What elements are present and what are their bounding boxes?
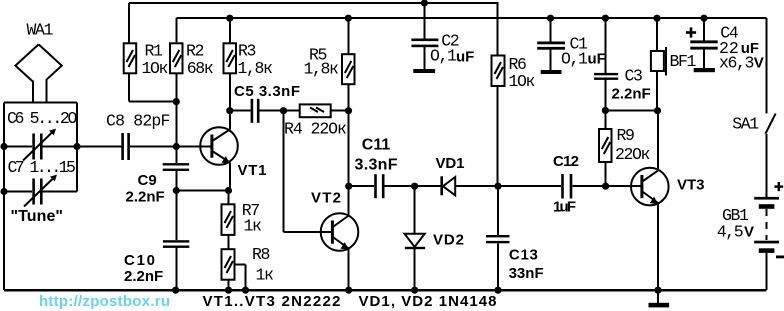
svg-text:R1: R1	[145, 42, 164, 61]
wire second rail	[176, 17, 766, 19]
node ground-rail	[654, 287, 661, 294]
wire signal row to C8	[77, 146, 121, 148]
svg-text:R9: R9	[617, 126, 635, 145]
transistor VT3	[606, 111, 705, 291]
node C10-rail	[172, 287, 179, 294]
wire bottom rail	[4, 289, 767, 291]
node C9-emitter	[173, 187, 180, 194]
node VT2 emitter-rail	[345, 287, 352, 294]
capacitor C2	[411, 3, 474, 73]
svg-text:http://zpostbox.ru: http://zpostbox.ru	[39, 293, 170, 310]
wire R9/BF1 row	[605, 109, 657, 111]
svg-text:x6,3: x6,3	[719, 53, 754, 72]
resistor R8 (with tap)	[222, 245, 274, 290]
svg-text:SA1: SA1	[732, 115, 759, 134]
svg-text:1Oк: 1Oк	[509, 72, 535, 91]
diode VD2	[405, 186, 465, 290]
capacitor C6 (variable)	[4, 109, 77, 161]
node VD2-rail	[411, 287, 418, 294]
svg-text:68к: 68к	[187, 59, 213, 78]
node C3-rail	[602, 15, 609, 22]
switch SA1	[732, 18, 775, 197]
svg-text:R8: R8	[252, 245, 270, 264]
svg-text:1uF: 1uF	[553, 198, 576, 215]
svg-text:O,1: O,1	[430, 47, 457, 66]
resistor R7	[222, 191, 262, 250]
node BF1-collector	[654, 107, 661, 114]
capacitor C5	[230, 83, 300, 123]
capacitor C8	[106, 112, 169, 161]
svg-text:uF: uF	[588, 51, 606, 68]
wire top rail	[129, 2, 499, 4]
node base VT1	[173, 143, 180, 150]
svg-text:C11: C11	[362, 137, 391, 154]
transistor VT2	[311, 111, 358, 290]
node R8-rail	[225, 287, 232, 294]
resistor R9	[599, 110, 650, 186]
svg-text:R4 22Oк: R4 22Oк	[284, 120, 346, 139]
capacitor C13	[486, 186, 544, 290]
node R8 tap-rail	[242, 287, 249, 294]
svg-text:3.3nF: 3.3nF	[355, 156, 398, 173]
node C7 left	[0, 188, 7, 195]
node BF1-rail	[653, 15, 660, 22]
svg-text:22Oк: 22Oк	[615, 145, 650, 164]
svg-text:4,5: 4,5	[717, 223, 743, 242]
svg-text:2.2nF: 2.2nF	[124, 268, 163, 285]
svg-text:2.2nF: 2.2nF	[612, 85, 651, 102]
svg-text:1,8к: 1,8к	[304, 60, 339, 79]
node C6 left	[0, 143, 7, 150]
node C5-R4	[280, 107, 287, 114]
svg-text:VT2: VT2	[311, 189, 341, 206]
node R3-rail	[226, 15, 233, 22]
svg-text:V: V	[744, 224, 754, 241]
node VT3 base	[602, 183, 609, 190]
node VT2 collector-C11	[345, 183, 352, 190]
svg-text:2.2nF: 2.2nF	[126, 188, 165, 205]
svg-text:C12: C12	[553, 153, 579, 170]
capacitor C10	[124, 191, 189, 291]
ground	[649, 290, 670, 307]
resistor R4	[284, 104, 349, 138]
svg-text:33nF: 33nF	[509, 265, 544, 282]
resistor R1	[124, 3, 177, 102]
capacitor C7 (variable)	[4, 158, 77, 225]
node R1-R2	[173, 98, 180, 105]
capacitor C11	[349, 137, 415, 199]
svg-text:C3: C3	[625, 67, 643, 86]
node detector out	[494, 183, 501, 190]
capacitor C9	[126, 147, 190, 206]
transistor VT1	[200, 111, 266, 191]
battery GB1	[717, 182, 784, 290]
diode VD1	[415, 155, 498, 196]
capacitor C12	[553, 153, 606, 215]
svg-text:BF1: BF1	[670, 52, 697, 71]
node C1-rail	[547, 15, 554, 22]
svg-text:VD1, VD2 1N4148: VD1, VD2 1N4148	[359, 293, 497, 310]
svg-text:uF: uF	[456, 48, 474, 65]
node R4-R5	[345, 107, 352, 114]
node C6 right	[73, 143, 80, 150]
svg-text:C6 5...2O: C6 5...2O	[7, 109, 77, 128]
capacitor C4 (polarized)	[686, 18, 764, 72]
node C4-rail	[700, 15, 707, 22]
svg-text:1Oк: 1Oк	[142, 59, 168, 78]
svg-text:WA1: WA1	[27, 21, 54, 40]
node C2-toprail	[421, 0, 428, 7]
wire C8 to VT1 base	[130, 146, 212, 148]
wire VT2 base drop	[284, 111, 332, 232]
node R3-C5	[226, 107, 233, 114]
node R5-rail	[345, 15, 352, 22]
resistor R2	[170, 18, 213, 146]
resistor R3	[224, 18, 273, 111]
svg-text:R2: R2	[186, 42, 204, 61]
resistor R6	[492, 55, 535, 186]
svg-text:C8 82pF: C8 82pF	[106, 112, 169, 131]
node emitter-R7	[225, 187, 232, 194]
antenna WA1	[15, 21, 61, 103]
resistor R5	[304, 18, 355, 111]
svg-text:VD2: VD2	[433, 232, 464, 249]
svg-text:"Tune": "Tune"	[11, 208, 64, 225]
svg-text:C10: C10	[124, 252, 155, 269]
svg-text:R3: R3	[238, 42, 256, 61]
svg-text:VT1: VT1	[238, 162, 267, 179]
node C13-rail	[494, 287, 501, 294]
node VD2 top	[411, 183, 418, 190]
earphone BF1	[651, 18, 697, 111]
wire C12 row	[498, 185, 561, 187]
tuning box	[4, 102, 77, 191]
svg-text:VT3: VT3	[677, 177, 705, 194]
wire R6 feed drop	[497, 3, 499, 55]
svg-text:V: V	[754, 54, 764, 71]
svg-text:1,8к: 1,8к	[238, 59, 273, 78]
wire left column	[3, 102, 5, 290]
capacitor C1	[537, 18, 606, 74]
node C3-R9	[602, 107, 609, 114]
svg-text:C13: C13	[509, 247, 538, 264]
svg-text:1к: 1к	[256, 265, 274, 284]
svg-text:1к: 1к	[244, 216, 262, 235]
svg-text:VD1: VD1	[436, 155, 465, 172]
capacitor C3	[594, 18, 651, 110]
svg-text:O,1: O,1	[561, 50, 588, 69]
svg-text:C7 1...15: C7 1...15	[8, 158, 75, 177]
wire emitter row C9-R7	[176, 190, 228, 192]
svg-text:C5 3.3nF: C5 3.3nF	[234, 83, 300, 100]
svg-text:C9: C9	[138, 172, 157, 189]
